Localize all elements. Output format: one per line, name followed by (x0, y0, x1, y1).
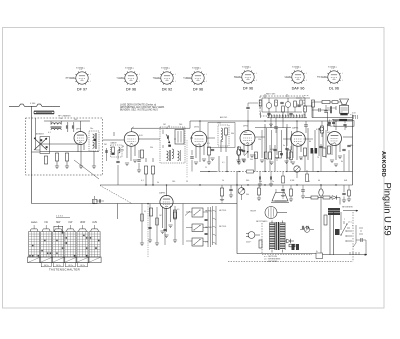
svg-text:75: 75 (308, 181, 310, 183)
ground V3 (194, 159, 206, 165)
svg-text:U 2: U 2 (205, 242, 208, 244)
svg-text:4k7: 4k7 (327, 132, 330, 134)
wire V2 right (138, 139, 160, 185)
FM box extra parts (259, 94, 310, 118)
svg-text:DAF96: DAF96 (292, 127, 299, 130)
svg-text:5k: 5k (60, 118, 62, 120)
svg-text:DK 92: DK 92 (162, 88, 173, 92)
capacitor C11 (239, 148, 242, 150)
band switch Tastenschalter (31, 215, 98, 224)
ground V7 (160, 225, 172, 238)
svg-text:70: 70 (317, 157, 319, 159)
svg-text:SCHIRM g: SCHIRM g (328, 66, 337, 68)
resistor R12 (255, 152, 258, 159)
IF core marks T1 (168, 145, 171, 147)
wire FM box internals (262, 93, 302, 112)
wire bus ground return (32, 203, 238, 205)
svg-text:6k8: 6k8 (344, 180, 347, 182)
svg-text:5k: 5k (157, 182, 159, 184)
svg-text:SCHIRM g: SCHIRM g (292, 66, 301, 68)
wire output row (305, 198, 340, 205)
svg-text:BUNDEN. GEZ. IN STELLUNG AUS: BUNDEN. GEZ. IN STELLUNG AUS (120, 109, 158, 112)
svg-text:LAGE DER KONTAKTE (Drehw. a): LAGE DER KONTAKTE (Drehw. a) (120, 103, 156, 106)
wire speaker drop (352, 115, 354, 185)
svg-text:g2: g2 (132, 127, 134, 129)
dashed box FM demodulator (260, 96, 309, 117)
switch column UKW (76, 229, 89, 263)
wire V6 pins (332, 121, 353, 160)
shield box solid (175, 130, 184, 145)
ground V4 (242, 155, 254, 163)
svg-text:70: 70 (192, 133, 194, 135)
svg-text:SCHIRM g: SCHIRM g (242, 66, 251, 68)
svg-text:x: x (352, 225, 353, 227)
svg-text:0,5M: 0,5M (290, 180, 295, 182)
svg-text:DL 96: DL 96 (329, 87, 339, 91)
svg-text:BANDF.: BANDF. (111, 141, 118, 144)
wire power section (237, 253, 316, 255)
capacitor C5 (211, 148, 214, 150)
potentiometer feedback (294, 160, 300, 178)
svg-text:SCHIRM g: SCHIRM g (161, 67, 170, 69)
svg-text:0,1: 0,1 (141, 180, 144, 182)
electrolytic near V4 (236, 146, 248, 163)
electrolytic C19 (292, 244, 295, 250)
tube V4 DF96 IF amp 2 (240, 126, 255, 146)
switch column Laden (28, 229, 41, 263)
svg-text:SCHIRM: SCHIRM (183, 78, 191, 80)
resistor R15 (327, 146, 330, 154)
ground V6 (330, 156, 342, 167)
svg-text:Pinguin U 59: Pinguin U 59 (383, 183, 393, 236)
svg-text:100: 100 (172, 181, 175, 183)
capacitor C18 (306, 226, 308, 229)
svg-text:8n: 8n (221, 141, 223, 143)
svg-text:ANTENNE: ANTENNE (66, 77, 76, 80)
capacitor C17 (301, 226, 303, 229)
right edge pickup labels (350, 113, 356, 118)
svg-text:DK92: DK92 (194, 127, 200, 129)
resistor R2 (65, 153, 68, 161)
wire V4 pins (244, 121, 252, 158)
battery switch contacts (344, 219, 363, 247)
antenna lead-in (9, 103, 60, 106)
speaker body with winding (339, 106, 348, 116)
ground symbols box A (55, 151, 96, 169)
wire left drop (31, 152, 33, 204)
switch column LW (40, 229, 53, 263)
fuse box (316, 251, 323, 259)
oscillator shield box (208, 116, 235, 148)
tube V7 DAF96 AF section (159, 192, 173, 209)
wire corner drop (117, 204, 119, 220)
svg-text:1 2 3 4: 1 2 3 4 (56, 215, 63, 217)
svg-text:LW 2a: LW 2a (80, 265, 85, 267)
svg-text:0,02: 0,02 (270, 149, 274, 151)
resistor R20 (173, 210, 176, 218)
tube base diagram DF96 (183, 69, 207, 92)
IF transformer T1 dashed can (160, 127, 185, 163)
switch column AUS (88, 229, 101, 263)
svg-text:2M: 2M (104, 144, 107, 146)
ground row mid (207, 155, 246, 165)
svg-text:RATIO DET.: RATIO DET. (266, 93, 276, 96)
svg-text:DF 97: DF 97 (77, 88, 87, 92)
verticals between V5 V6 (308, 128, 326, 160)
svg-text:0,25: 0,25 (316, 129, 320, 131)
wire switch feeds (34, 200, 95, 229)
svg-text:60: 60 (309, 141, 311, 143)
dial cord diagonal (74, 160, 99, 179)
dashed power chassis outline (228, 212, 353, 262)
capacitor C7 (280, 101, 283, 103)
svg-text:1M: 1M (163, 124, 166, 126)
mid extra verticals (209, 118, 351, 172)
diode D4 rectifier (285, 239, 294, 243)
svg-text:2n: 2n (266, 159, 268, 161)
power transformer (256, 220, 285, 253)
svg-text:50k: 50k (250, 159, 253, 161)
resistor R28 (324, 215, 327, 225)
svg-text:DIODE: DIODE (285, 77, 292, 79)
svg-text:Laden: Laden (31, 222, 38, 224)
filter choke hatched (328, 208, 340, 215)
AF vertical wires (140, 204, 183, 246)
dashed box band filter (106, 141, 122, 161)
switch column KW (64, 229, 77, 263)
svg-text:SCHIRM g: SCHIRM g (76, 67, 85, 69)
capacitor C3 (72, 122, 74, 132)
resistor R3 (44, 156, 47, 164)
wire bottom left rail (31, 203, 33, 205)
wire top HT bus (132, 121, 353, 128)
resistor R8 (237, 147, 240, 155)
switch contacts power (340, 221, 352, 236)
wire to mains arrow (323, 252, 368, 256)
resistor R5 (144, 166, 147, 174)
contact group box 2 (186, 224, 212, 232)
AVC caps row (258, 172, 285, 187)
wire volume drop dotted (147, 204, 149, 258)
tube V6 DL96 output (328, 126, 342, 145)
wire A to V2 (103, 121, 125, 140)
contact group box 1 (185, 208, 212, 217)
ladder verticals V4 V5 (255, 128, 292, 165)
loudspeaker LS (340, 99, 349, 104)
mains plug (246, 232, 260, 244)
electrolytic C15 (319, 185, 323, 253)
component value labels (48, 118, 353, 184)
svg-text:0,5: 0,5 (177, 209, 179, 211)
resistor R14 (303, 148, 306, 156)
svg-text:NETZKREIS: NETZKREIS (342, 206, 353, 208)
dashed diagonal link (100, 186, 132, 204)
svg-text:90: 90 (345, 127, 347, 129)
svg-text:25k: 25k (150, 147, 153, 149)
svg-text:o: o (344, 219, 345, 221)
resistor R26 (311, 196, 318, 199)
svg-text:ABSTIMMTEIL AUF UKW MIT SEIL V: ABSTIMMTEIL AUF UKW MIT SEIL VERB. (120, 106, 165, 109)
note text block (120, 103, 165, 111)
ferrite rod antenna (34, 111, 54, 114)
tube base diagram DF97 (66, 69, 91, 92)
tube base diagram DL96 (317, 68, 343, 91)
component on ground bus (93, 196, 98, 204)
diode D2 (285, 98, 291, 116)
svg-text:0,5: 0,5 (207, 143, 210, 145)
svg-text:ENDROHR: ENDROHR (317, 77, 327, 79)
resistors under V5 (290, 146, 309, 182)
svg-text:TELEF.: TELEF. (250, 210, 257, 212)
dashed box HF chassis (26, 115, 103, 175)
legend text power (264, 256, 281, 263)
capacitor C6 (242, 149, 245, 151)
switch column MW (52, 229, 65, 263)
tube V5 DAF96 det (291, 127, 306, 147)
bus jog segment (320, 112, 353, 131)
svg-text:2n: 2n (272, 181, 274, 183)
svg-text:LW 2a: LW 2a (68, 265, 73, 267)
dashed box oscillator coil (217, 123, 229, 152)
resistor R7 (207, 147, 210, 155)
svg-text:0,1: 0,1 (48, 132, 51, 134)
svg-text:DAF96: DAF96 (159, 192, 166, 195)
diode D3 (332, 195, 337, 199)
svg-text:0,5: 0,5 (300, 159, 303, 161)
svg-text:220V~: 220V~ (246, 242, 252, 244)
svg-text:UKW: UKW (80, 222, 86, 224)
link dotted vertical (186, 140, 188, 178)
capacitor C2 (66, 122, 68, 132)
potentiometer R29 (300, 227, 314, 233)
capacitor C12 (342, 148, 345, 150)
svg-text:25: 25 (205, 167, 207, 169)
wire V2 pins (127, 128, 135, 161)
electrolytic C20 (296, 244, 299, 250)
svg-text:DF 96: DF 96 (243, 87, 253, 91)
svg-text:40: 40 (318, 180, 320, 182)
resistor R4 (140, 150, 143, 158)
wire long vertical (236, 172, 238, 254)
resistor R13 (287, 150, 290, 158)
resistor R19 (149, 208, 152, 216)
svg-text:0,05: 0,05 (139, 135, 143, 137)
svg-text:12k: 12k (291, 135, 294, 137)
resistor R6 (151, 166, 154, 174)
svg-text:TASTENSCHALTER: TASTENSCHALTER (49, 268, 80, 272)
resistor R30 (259, 240, 262, 248)
svg-text:LW 2a: LW 2a (44, 265, 49, 267)
svg-text:AM OSZ.: AM OSZ. (220, 116, 228, 119)
svg-text:SCHIRM g: SCHIRM g (192, 67, 201, 69)
hangers bus AVC extra (220, 185, 351, 203)
tube base diagram DAF96 (285, 68, 307, 91)
wire V7 pins (163, 185, 171, 232)
IF transformer can T0 (89, 131, 99, 151)
svg-text:25: 25 (186, 181, 188, 183)
output transformer bar (334, 119, 354, 126)
variable capacitor C1 tuning gang (32, 132, 81, 153)
loudspeaker drop caps (343, 121, 346, 130)
svg-text:5p: 5p (259, 107, 261, 109)
svg-text:AM ABST.: AM ABST. (36, 132, 45, 135)
switch column MW extension (54, 226, 63, 231)
svg-text:GITTER: GITTER (117, 78, 125, 80)
tube link wires (93, 120, 336, 204)
pin note text row (76, 66, 337, 69)
terminal dots (353, 116, 358, 119)
svg-text:F 566: F 566 (30, 103, 36, 105)
svg-text:1n: 1n (275, 102, 277, 104)
coupling caps dark pair (311, 148, 318, 154)
wire V1 pins (78, 121, 84, 156)
tube V2 DF96 IF amp (124, 127, 139, 147)
resistor R11b (312, 101, 341, 113)
svg-text:AKKORD: AKKORD (380, 151, 386, 177)
svg-text:300: 300 (246, 180, 249, 182)
svg-text:8k: 8k (341, 161, 343, 163)
svg-text:DF 96: DF 96 (193, 88, 203, 92)
svg-text:NF TEIL: NF TEIL (219, 226, 227, 228)
oscillator coil L1 (51, 121, 62, 130)
svg-text:3p: 3p (297, 104, 299, 106)
right column parts above V6 (304, 100, 330, 137)
svg-text:15k: 15k (258, 139, 261, 141)
capacitor C8 (297, 104, 300, 106)
tube base diagram DF96 (117, 69, 140, 92)
wire box A bottom rail (40, 151, 99, 153)
speaker round (250, 207, 287, 219)
wire antenna downlead (31, 106, 33, 152)
dial lamp trapezoid (271, 189, 289, 202)
wire antenna second downlead (36, 118, 40, 150)
arrow to legend (342, 206, 358, 211)
svg-text:500: 500 (244, 132, 247, 134)
svg-text:DAF 96: DAF 96 (292, 87, 305, 91)
switch comb strip (267, 115, 307, 118)
switch strip boundary (213, 206, 228, 245)
svg-text:50: 50 (122, 146, 124, 148)
wire B+ verticals (330, 212, 341, 255)
wire V5 pins (293, 121, 301, 160)
tube base diagram DK92 (152, 69, 176, 92)
svg-text:0,1: 0,1 (144, 211, 146, 213)
svg-text:DF 96: DF 96 (126, 88, 136, 92)
svg-text:200: 200 (179, 124, 182, 126)
svg-text:30k: 30k (231, 133, 234, 135)
svg-text:LW 2a: LW 2a (56, 265, 61, 267)
svg-text:z.B: z.B (340, 111, 342, 113)
svg-text:0,1: 0,1 (222, 162, 225, 164)
svg-text:3n: 3n (283, 145, 285, 147)
wire FM to output (304, 102, 353, 118)
capacitor block C16 (335, 229, 340, 235)
svg-text:18n: 18n (350, 145, 353, 147)
resistor R27 (323, 196, 330, 199)
extra wires left mid (107, 139, 194, 185)
wire bus AVC (100, 184, 353, 186)
resistor R31 (289, 244, 295, 247)
capacitor on ground bus left (96, 199, 104, 206)
tube base diagram DF96 (234, 68, 257, 91)
svg-text:10n: 10n (90, 128, 93, 130)
misc labels row2 (205, 155, 343, 169)
wire bus B+ (200, 170, 353, 173)
svg-text:TRIODE: TRIODE (152, 78, 160, 80)
svg-text:AUS: AUS (92, 221, 97, 224)
resistor R32 (323, 148, 326, 157)
svg-text:100: 100 (74, 119, 77, 121)
svg-text:HF TEIL: HF TEIL (219, 210, 227, 212)
ground V5 (291, 157, 303, 165)
svg-text:50k: 50k (259, 181, 262, 183)
switch sub labels (41, 263, 87, 267)
tube V1 DF97 RF amp (74, 129, 87, 145)
resistor R1 (55, 153, 58, 161)
svg-text:ANODE: ANODE (234, 76, 241, 79)
diode D1 (266, 98, 272, 116)
tube V3 DK92 mixer (191, 127, 207, 147)
potentiometer volume (238, 185, 249, 200)
contact group box 3 (183, 238, 208, 246)
wire osc top feed (246, 103, 258, 121)
ground V2 (125, 160, 137, 166)
resistor R9 (275, 100, 278, 106)
svg-text:SCHIRM g: SCHIRM g (125, 67, 134, 69)
svg-text:50k: 50k (246, 194, 249, 196)
speaker coupling parts (327, 106, 336, 113)
wire comb drops (270, 118, 284, 133)
svg-text:NETZTRAFO: NETZTRAFO (256, 220, 268, 223)
svg-text:a b c: a b c (348, 221, 352, 223)
wire contact feeds (203, 207, 211, 247)
IF can core marks (94, 139, 96, 141)
svg-text:1k: 1k (222, 180, 224, 182)
resistor R10 (294, 101, 297, 107)
junction dots buses (145, 171, 336, 186)
capacitor battery side (356, 238, 366, 255)
resistor R11 (300, 100, 302, 105)
wire RF input bus (44, 120, 90, 122)
wire V3 pins (190, 121, 204, 162)
